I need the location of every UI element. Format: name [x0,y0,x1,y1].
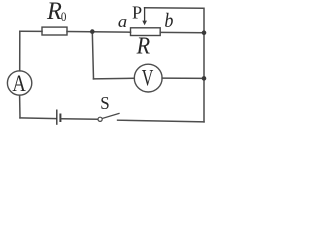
svg-text:R: R [46,0,62,25]
svg-text:b: b [164,10,173,32]
svg-text:A: A [12,70,26,97]
svg-text:S: S [100,92,109,113]
svg-text:V: V [142,66,154,92]
svg-text:0: 0 [61,11,67,25]
svg-text:P: P [132,3,142,23]
svg-text:R: R [136,31,150,58]
svg-text:a: a [118,12,127,31]
